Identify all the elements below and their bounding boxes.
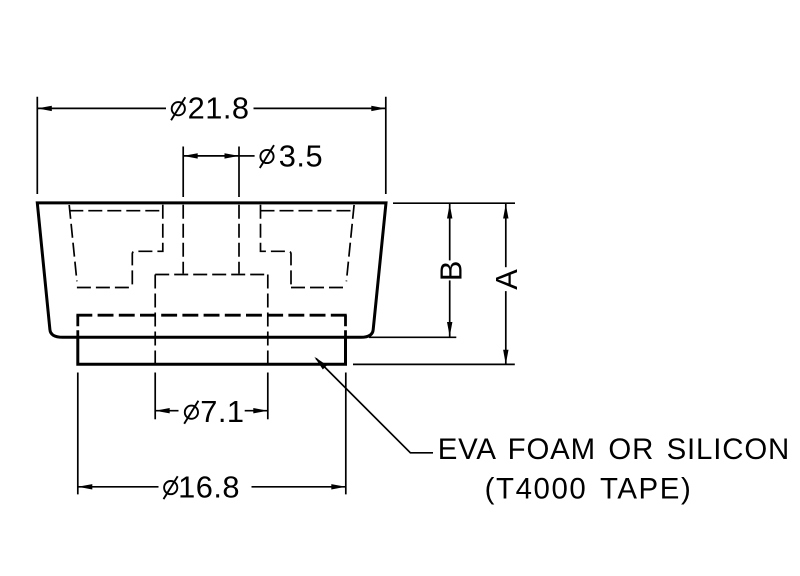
svg-text:A: A	[489, 269, 524, 290]
svg-text:7.1: 7.1	[200, 394, 244, 429]
svg-text:EVA FOAM OR SILICON: EVA FOAM OR SILICON	[438, 433, 790, 466]
svg-text:3.5: 3.5	[279, 139, 323, 174]
svg-text:(T4000 TAPE): (T4000 TAPE)	[485, 473, 693, 506]
svg-text:B: B	[433, 260, 468, 281]
svg-text:16.8: 16.8	[178, 470, 240, 505]
svg-text:21.8: 21.8	[188, 91, 250, 126]
